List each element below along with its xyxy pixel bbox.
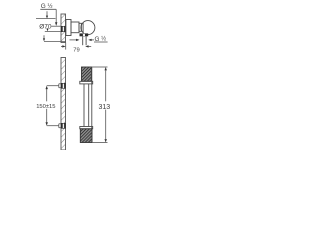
- svg-text:Ø70: Ø70: [39, 23, 52, 30]
- svg-text:79: 79: [73, 47, 79, 53]
- svg-text:G ½: G ½: [95, 36, 107, 43]
- svg-text:G ½: G ½: [41, 3, 53, 10]
- svg-text:313: 313: [99, 104, 111, 111]
- svg-text:150±15: 150±15: [36, 104, 55, 110]
